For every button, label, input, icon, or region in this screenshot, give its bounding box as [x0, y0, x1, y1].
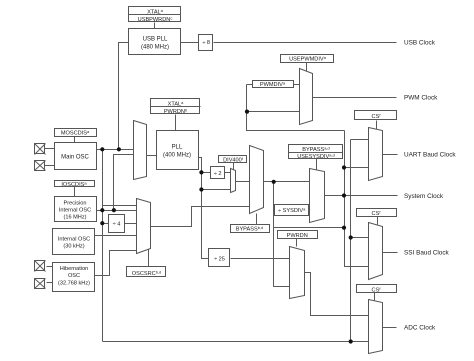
label BYPASS2: [231, 225, 270, 233]
svg-text:SSI Baud Clock: SSI Baud Clock: [404, 250, 450, 257]
MUX LAYER: [134, 69, 383, 354]
node system trunk / uart feed: [342, 165, 346, 169]
crystal X4: [35, 279, 46, 289]
wire piosc trunk to uart mux: [351, 139, 369, 141]
svg-text:(32.768 kHz): (32.768 kHz): [58, 281, 90, 287]
svg-text:System Clock: System Clock: [404, 193, 444, 200]
crystal X1: [35, 144, 46, 155]
wire moscdis label connector: [74, 137, 76, 143]
Internal OSC box: [53, 229, 95, 255]
wire main osc branch into oscsrc mux: [103, 205, 137, 207]
wire usb pll to div8: [181, 42, 199, 44]
wire pll output drop x201: [199, 158, 209, 259]
svg-text:MOSCDISa: MOSCDISa: [61, 129, 90, 137]
wire xtal usbpwrdn label connector: [154, 23, 156, 29]
wire oscsrc label connector: [148, 250, 150, 267]
label PWRDN: [278, 231, 318, 239]
svg-text:Precision: Precision: [63, 201, 86, 207]
label XTAL/USBPWRDN: [129, 7, 181, 22]
wire usepwmdiv label connector: [306, 63, 308, 72]
label OSCSRC: [127, 267, 166, 277]
svg-text:DIV400f: DIV400f: [223, 156, 244, 164]
wire div400 mux output to bypass mux: [236, 181, 251, 183]
svg-text:USB PLL: USB PLL: [143, 37, 168, 43]
svg-text:(16 MHz): (16 MHz): [64, 215, 87, 221]
svg-text:Main OSC: Main OSC: [61, 155, 89, 161]
node pwm lower input branch: [245, 110, 249, 114]
svg-text:÷ 8: ÷ 8: [202, 40, 210, 46]
node main osc / usb riser: [117, 147, 121, 151]
crystal X3: [35, 261, 46, 272]
wire pwrdn mux output to adc mux: [305, 273, 369, 316]
mux bypass: [250, 146, 264, 214]
svg-text:Internal OSC: Internal OSC: [59, 208, 91, 214]
svg-text:PWRDNb: PWRDNb: [164, 107, 188, 115]
wire pll mux output to pll: [147, 155, 157, 157]
wire adc clock out: [383, 327, 397, 329]
svg-text:(400 MHz): (400 MHz): [163, 153, 191, 159]
node piosc trunk / ssi feed: [349, 235, 353, 239]
svg-text:ADC Clock: ADC Clock: [404, 325, 436, 332]
label PWMDIV: [253, 81, 294, 88]
wire pwrdn label connector: [296, 239, 298, 247]
label MOSCDIS: [55, 129, 97, 137]
node system trunk / y227 branch: [342, 226, 346, 230]
mux pll input: [134, 121, 147, 180]
node pll drop / div2: [199, 170, 203, 174]
wire xtal pwrdn label connector: [175, 115, 177, 131]
mux oscsrc: [137, 199, 151, 254]
wire sysdiv box output to usesysdiv mux: [309, 209, 311, 211]
BOXES LAYER: [35, 7, 397, 294]
svg-text:PLL: PLL: [172, 145, 183, 151]
wire ssi baud clock out: [383, 252, 398, 254]
node piosc / div4 branch: [100, 221, 104, 225]
node system trunk / system clock: [342, 193, 346, 197]
node pll drop / div400 direct: [199, 187, 203, 191]
wire main osc output to pll mux: [97, 149, 134, 151]
wire cs uart label connector: [376, 121, 378, 130]
wire bypass2 label connector: [256, 214, 258, 225]
label DIV400: [219, 156, 247, 163]
wire cs adc label connector: [374, 293, 376, 301]
label BYPASS/USESYSDIV: [289, 145, 343, 159]
crystal X2: [35, 161, 46, 171]
wire bottom trunk piosc: [103, 341, 369, 343]
wire branch to system trunk y227.7: [274, 227, 345, 229]
wire hibernation osc output riser: [95, 251, 137, 276]
svg-text:PWRDN: PWRDN: [287, 233, 308, 239]
svg-text:÷ 2: ÷ 2: [214, 171, 222, 177]
svg-text:PWM Clock: PWM Clock: [404, 94, 438, 101]
svg-text:÷ 4: ÷ 4: [113, 222, 121, 228]
wire xtal3 to hibernation osc: [47, 266, 53, 268]
wire bypass out drop x273.7: [274, 182, 290, 287]
Precision Internal OSC box: [55, 197, 97, 222]
mux adc clock: [369, 300, 383, 354]
wire piosc to div4: [103, 223, 109, 225]
mux pwm (usepwmdiv): [300, 69, 313, 125]
label CS ssi: [357, 209, 397, 217]
svg-text:÷ 25: ÷ 25: [214, 257, 225, 263]
Hibernation OSC box: [53, 263, 95, 292]
label CS adc: [357, 285, 397, 293]
wire pwmdiv label to pwm mux: [293, 84, 300, 86]
wire internal osc output to oscsrc mux: [95, 235, 137, 237]
wire piosc long drop to bottom trunk: [102, 150, 104, 342]
wire xtal2 to main osc: [45, 165, 55, 167]
label USEPWMDIV: [281, 55, 334, 63]
wire xtal1 to main osc: [45, 148, 55, 150]
svg-text:Internal OSC: Internal OSC: [58, 237, 90, 243]
wire uart baud clock out: [383, 154, 398, 156]
wire pll direct to div400 mux: [202, 189, 231, 191]
svg-text:Hibernation: Hibernation: [60, 266, 89, 272]
wire piosc trunk to ssi mux: [351, 237, 369, 239]
wire pwm clock out: [313, 97, 397, 99]
Main OSC box: [55, 143, 97, 170]
WIRES LAYER: [45, 23, 398, 342]
OUTPUT TEXT: [404, 39, 456, 331]
node main osc / piosc drop: [100, 147, 104, 151]
svg-text:(480 MHz): (480 MHz): [141, 45, 169, 51]
svg-text:÷ SYSDIVa: ÷ SYSDIVa: [278, 207, 306, 215]
wire system clock out: [325, 195, 398, 197]
wire div2 output to div400 mux: [225, 172, 231, 174]
wire cs ssi label connector: [377, 217, 379, 225]
wire piosc output to oscsrc mux: [97, 210, 137, 212]
svg-text:PWMDIVa: PWMDIVa: [260, 81, 286, 89]
node bypass out / sysdiv drop: [272, 180, 276, 184]
divider /2: [211, 167, 225, 179]
divider /8: [199, 35, 213, 51]
svg-text:USESYSDIVa,d: USESYSDIVa,d: [297, 153, 335, 161]
wire pwmdiv label left stub: [247, 84, 253, 86]
wire pwm mux lower input: [247, 111, 300, 113]
svg-text:USBPWRDNc: USBPWRDNc: [138, 15, 173, 23]
wire pll drop to div2: [202, 172, 211, 174]
svg-text:UART Baud Clock: UART Baud Clock: [404, 152, 456, 159]
wire pwm feed riser x247: [247, 85, 345, 131]
wire bypass usesysdiv label connector: [316, 159, 318, 171]
svg-text:USB Clock: USB Clock: [404, 39, 436, 46]
wire ioscdis label connector: [74, 187, 76, 197]
wire bypass mux output to usesysdiv mux: [264, 181, 310, 183]
label XTAL/PWRDN: [151, 99, 200, 114]
label IOSCDIS: [55, 181, 95, 187]
svg-text:(30 kHz): (30 kHz): [63, 244, 84, 250]
wire usb pll input riser: [119, 43, 129, 150]
node piosc out / pll mux riser: [112, 208, 116, 212]
PLL box: [157, 131, 199, 170]
svg-text:OSC: OSC: [68, 273, 80, 279]
mux pwrdn (adc source): [290, 247, 305, 299]
wire piosc trunk x350.7: [350, 140, 352, 342]
wire bottom trunk into adc mux: [351, 341, 369, 343]
wire xtal4 to hibernation osc: [47, 282, 53, 284]
wire piosc riser to pll mux: [114, 155, 134, 211]
wire div400 label connector: [233, 163, 235, 170]
mux div400: [231, 169, 236, 193]
wire oscsrc mux output to bypass mux: [151, 207, 251, 227]
divider /25: [209, 249, 230, 267]
divider SYSDIV box: [275, 205, 309, 216]
wire div25 output to pwrdn mux: [231, 258, 290, 260]
divider /4: [109, 215, 125, 233]
node piosc out / long drop: [100, 208, 104, 212]
wire div4 output to oscsrc mux: [125, 223, 137, 225]
wire system trunk x344: [345, 131, 369, 267]
wire system trunk branch to uart mux: [345, 167, 369, 169]
svg-text:USEPWMDIVa: USEPWMDIVa: [289, 55, 327, 63]
label CS uart: [355, 111, 397, 120]
mux usesysdiv: [310, 169, 325, 223]
mux ssi baud: [369, 223, 383, 280]
USB PLL box: [129, 29, 181, 55]
svg-text:IOSCDISa: IOSCDISa: [61, 181, 87, 189]
mux uart baud: [369, 128, 383, 181]
node piosc trunk / bottom trunk: [349, 339, 353, 343]
wire usb clock out: [214, 42, 397, 44]
